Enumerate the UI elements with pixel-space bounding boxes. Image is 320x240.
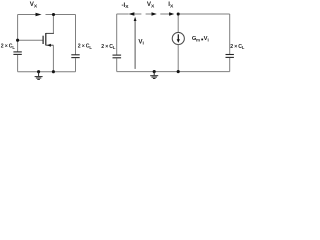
wire drain horizontal xyxy=(46,32,54,34)
wire source branch down xyxy=(52,45,54,71)
ground (left circuit) xyxy=(35,72,43,80)
wire left branch xyxy=(17,15,19,52)
wire top rail seg 2 xyxy=(134,13,141,15)
svg-text:2 × CL: 2 × CL xyxy=(101,44,116,50)
wire top rail left segment xyxy=(18,14,36,16)
wire current source branch lower xyxy=(177,45,179,72)
node source junction dot xyxy=(52,70,55,73)
node top junction dot (right circuit) xyxy=(177,12,180,15)
capacitor 2xCL right (left circuit) xyxy=(71,54,79,56)
label multiply dot (of Gm*Vi) xyxy=(201,39,203,41)
svg-text:2 × CL: 2 × CL xyxy=(78,44,93,50)
node gate junction dot xyxy=(16,39,19,42)
current source inner arrow (down) xyxy=(177,34,179,39)
wire top rail right segment xyxy=(46,14,76,16)
wire bottom rail (right circuit) xyxy=(117,71,230,73)
ground (right circuit) xyxy=(150,72,158,79)
capacitor 2xCL left (left circuit) xyxy=(13,51,21,53)
wire right branch xyxy=(75,15,77,55)
wire top rail seg 3 xyxy=(146,13,152,15)
wire source horizontal xyxy=(46,44,54,46)
arrowhead VX (left circuit) xyxy=(36,13,42,17)
wire left cap to bottom rail (right circuit) xyxy=(116,58,118,71)
svg-text:2 × CL: 2 × CL xyxy=(230,44,245,50)
wire current source branch upper xyxy=(177,14,179,33)
node current source bottom dot xyxy=(177,70,180,73)
arrowhead -IX (pointing left) xyxy=(128,12,134,16)
wire right branch (right circuit) xyxy=(229,14,231,54)
transistor M1 source arrowhead xyxy=(47,44,51,47)
transistor M1 channel bar xyxy=(45,33,47,45)
wire top rail seg 5 xyxy=(180,13,230,15)
dependent current source Gm*Vi circle xyxy=(172,32,184,44)
wire left branch (right circuit) xyxy=(116,14,118,55)
wire right cap to bottom rail xyxy=(75,58,77,72)
svg-text:Vi: Vi xyxy=(204,36,209,42)
voltage arrow Vi (pointing up) xyxy=(134,21,136,69)
wire left cap to bottom rail xyxy=(17,55,19,72)
capacitor 2xCL left (right circuit) xyxy=(113,54,122,56)
node drain junction dot xyxy=(52,13,55,16)
wire right cap to bottom rail (right circuit) xyxy=(229,58,231,72)
node ground junction dot (left circuit) xyxy=(37,70,40,73)
arrowhead IX xyxy=(169,12,174,16)
transistor M1 gate bar xyxy=(42,36,44,44)
arrowhead VX (right circuit) xyxy=(152,12,157,16)
wire top rail seg 4 xyxy=(160,13,169,15)
node ground junction dot (right circuit) xyxy=(153,70,156,73)
svg-text:2 × CL: 2 × CL xyxy=(1,44,16,50)
wire gate xyxy=(18,39,43,41)
svg-text:Gm: Gm xyxy=(192,36,200,42)
wire bottom rail xyxy=(18,71,76,73)
wire top rail seg 1 xyxy=(117,13,129,15)
capacitor 2xCL right (right circuit) xyxy=(226,54,234,56)
wire drain branch xyxy=(52,15,54,34)
